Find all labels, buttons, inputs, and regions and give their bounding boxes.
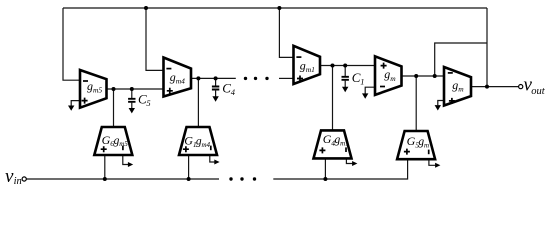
svg-text:m: m bbox=[458, 85, 464, 94]
op-amp gm4 bbox=[164, 58, 192, 97]
node B dot to C4 bbox=[214, 76, 218, 80]
wire gm - input to ground bbox=[365, 87, 376, 93]
terminal vin bbox=[22, 177, 26, 181]
svg-text:m: m bbox=[390, 74, 396, 83]
capacitor C5 bbox=[128, 89, 151, 113]
svg-text:m5: m5 bbox=[93, 86, 102, 95]
ellipsis dots signal path bbox=[244, 77, 247, 80]
svg-text:m1: m1 bbox=[340, 140, 349, 148]
wire bottom input rail right segment bbox=[273, 159, 407, 179]
op-amp gm1 bbox=[294, 46, 321, 84]
node dot rail G1gm4 bbox=[187, 177, 191, 181]
wire vout riser to top rail bbox=[486, 8, 488, 87]
svg-text:m1: m1 bbox=[306, 65, 315, 74]
svg-text:m4: m4 bbox=[202, 141, 211, 149]
wire node D drop to G5gm bbox=[415, 76, 417, 131]
node C dot to G4gm1 bbox=[331, 64, 335, 68]
wire G4gm1 + input to rail bbox=[324, 158, 326, 179]
wire node A drop to G6gm5 bbox=[113, 89, 115, 127]
svg-text:in: in bbox=[14, 176, 22, 187]
wire last gm + input to ground bbox=[438, 101, 445, 106]
ground at gm - input bbox=[362, 93, 368, 98]
op-amp gm5 bbox=[80, 70, 107, 108]
wire G6gm5 - input to side ground bbox=[123, 155, 128, 165]
node dot rail G6gm5 bbox=[103, 177, 107, 181]
wire G1gm4 + input to rail bbox=[188, 155, 190, 179]
wire node B gm4 output segment bbox=[190, 77, 236, 79]
wire node B drop to G1gm4 bbox=[197, 78, 199, 127]
wire G1gm4 - input to side ground bbox=[210, 155, 215, 162]
capacitor C1 bbox=[342, 66, 365, 93]
capacitor C4 bbox=[212, 78, 236, 101]
transconductor G4gm1 bbox=[314, 130, 352, 158]
wire node B resumed into gm1 + input bbox=[279, 77, 295, 79]
svg-text:m5: m5 bbox=[119, 140, 128, 148]
svg-text:out: out bbox=[531, 86, 546, 97]
side ground arrow of G5gm bbox=[435, 163, 440, 168]
node D dot to feedback bbox=[433, 74, 437, 78]
ground at last gm + input bbox=[435, 105, 441, 110]
wire G5gm - input to side ground bbox=[429, 159, 436, 165]
svg-text:m4: m4 bbox=[176, 77, 185, 86]
wire feedback drop to gm4 inverting input bbox=[146, 8, 165, 70]
node A dot to G6gm5 bbox=[112, 87, 116, 91]
svg-text:m: m bbox=[424, 142, 429, 150]
wire inner feedback to last gm inverting input bbox=[435, 43, 487, 76]
op-amp gm (fourth stage, + on top) bbox=[375, 56, 402, 95]
wire node C drop to G4gm1 bbox=[332, 66, 334, 131]
node dot rail G4gm1 bbox=[323, 177, 327, 181]
wire node D gm output to last gm - input bbox=[401, 75, 446, 77]
node C dot to C1 bbox=[343, 64, 347, 68]
wire gm5 + input to ground bbox=[71, 101, 81, 106]
node D dot to G5gm bbox=[414, 74, 418, 78]
ground at gm5 + input bbox=[68, 106, 74, 111]
op-amp gm (output stage) bbox=[444, 67, 471, 106]
svg-text:4: 4 bbox=[231, 87, 236, 97]
terminal vout bbox=[519, 85, 523, 89]
side ground arrow of G4gm1 bbox=[352, 161, 357, 166]
transconductor G1gm4 bbox=[179, 127, 217, 155]
node A dot to C5 bbox=[130, 87, 134, 91]
wire top feedback rail from vout bbox=[63, 7, 487, 9]
wire G4gm1 - input to side ground bbox=[346, 158, 352, 164]
node dot top rail to gm1 bbox=[277, 6, 281, 10]
wire G6gm5 + input to rail bbox=[104, 155, 106, 179]
transconductor G6gm5 bbox=[94, 127, 132, 155]
wire bottom input rail left segment bbox=[26, 178, 219, 180]
node dot top rail to gm4 bbox=[144, 6, 148, 10]
svg-text:5: 5 bbox=[146, 98, 150, 108]
transconductor G5gm bbox=[397, 131, 435, 159]
ellipsis dots bottom rail bbox=[229, 177, 232, 180]
node B dot to G1gm4 bbox=[196, 76, 200, 80]
side ground arrow of G6gm5 bbox=[128, 162, 133, 167]
svg-text:1: 1 bbox=[360, 77, 364, 87]
wire output to vout terminal bbox=[470, 86, 519, 88]
wire feedback drop to gm5 inverting input bbox=[63, 8, 81, 80]
wire feedback drop to gm1 inverting input bbox=[279, 8, 294, 57]
side ground arrow of G1gm4 bbox=[214, 160, 219, 165]
wire node A gm5 output to gm4 + input bbox=[106, 88, 165, 90]
node dot vout bbox=[485, 85, 489, 89]
wire node C gm1 output to gm + input bbox=[319, 65, 376, 67]
